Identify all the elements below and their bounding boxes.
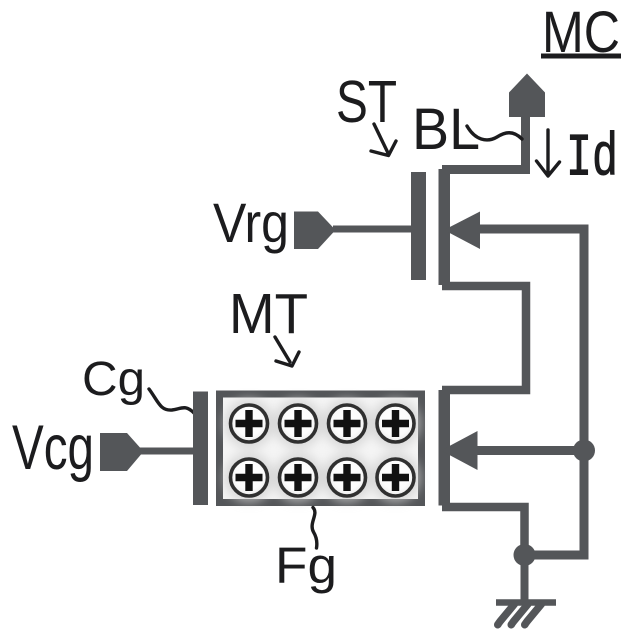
wire Vcg gate lead [140,448,195,455]
charge symbol 2 [280,405,317,442]
junction dot ground node [514,544,536,566]
charge symbol 1 [231,405,268,442]
transistor ST source arrow [444,212,480,250]
transistor ST channel [439,169,451,285]
ground stem [521,558,529,601]
leader squiggle BL to wire [467,126,522,140]
charge symbol 6 [280,459,317,496]
wire MT bottom to ground node [442,507,525,552]
transistor MT source arrow [441,431,478,470]
terminal BL (bit line top terminal) [509,74,545,118]
svg-text:Vrg: Vrg [213,191,289,254]
control gate Cg bar [193,392,208,506]
wire ST source to right rail and down to ground node [475,229,584,555]
svg-text:Id: Id [566,126,618,194]
charge symbol 8 [377,459,414,496]
current arrow Id [537,130,560,176]
wire BL drop to ST drain [442,114,526,170]
svg-text:ST: ST [336,69,397,135]
charge symbol 5 [231,459,268,496]
wire MT source to right rail [474,446,584,455]
wire ST bottom jog to MT drain [442,286,526,390]
wire Vrg gate lead [333,226,413,233]
charge symbol 4 [377,405,414,442]
leader squiggle Cg to control gate [149,389,194,413]
charge symbol 3 [329,405,366,442]
svg-text:Fg: Fg [275,537,337,594]
svg-text:MT: MT [229,282,308,346]
charge halos inside floating gate [224,399,421,503]
leader squiggle Fg to floating gate box [312,508,317,549]
label MC [541,0,621,65]
leader arrow ST to select transistor [371,124,396,156]
transistor ST gate bar [411,172,426,280]
charge symbol 7 [329,459,366,496]
floating gate Fg box [220,394,422,503]
terminal Vrg [294,212,336,250]
svg-text:Cg: Cg [82,353,145,406]
terminal Vcg [100,433,144,471]
transistor MT channel [439,390,451,506]
leader arrow MT to memory transistor [275,337,299,366]
svg-text:Vcg: Vcg [12,413,94,483]
ground symbol [496,603,556,625]
junction dot on right rail [573,440,595,462]
